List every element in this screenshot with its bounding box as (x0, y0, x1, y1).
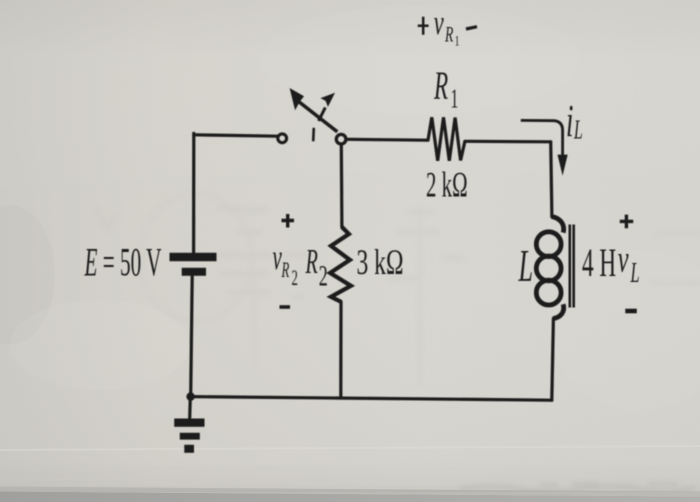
wire top middle (switch to R1) (346, 138, 428, 142)
wire middle branch lower (R2 to bottom) (339, 302, 342, 398)
svg-text:R: R (281, 257, 290, 281)
battery E short plate (182, 268, 206, 276)
switch motion arrowhead (321, 93, 336, 107)
ground symbol (174, 419, 204, 427)
svg-text:R: R (305, 244, 318, 282)
node junction dot (186, 392, 194, 400)
svg-text:1: 1 (455, 32, 460, 49)
svg-text:3 kΩ: 3 kΩ (357, 242, 404, 282)
inductor L coil (536, 217, 563, 319)
ink (84, 4, 640, 453)
label + above vR2 (282, 214, 295, 228)
svg-text:E = 50 V: E = 50 V (84, 239, 162, 284)
label + vR1 - (418, 4, 477, 49)
switch motion dash 1 (319, 108, 326, 121)
svg-text:L: L (573, 114, 582, 145)
switch motion dash 2 (312, 128, 315, 142)
wire left vertical lower (battery to bottom node) (191, 276, 193, 397)
svg-text:i: i (566, 96, 573, 147)
faint bleed-through ghosts (96, 194, 700, 492)
wire left vertical upper (to battery) (192, 133, 195, 252)
svg-text:v: v (618, 238, 629, 280)
label R2 (305, 244, 328, 293)
switch arm (299, 102, 337, 132)
label + above vL (620, 215, 633, 229)
svg-text:2: 2 (292, 265, 298, 289)
wire bottom horizontal (191, 397, 552, 401)
iL current arrow (521, 120, 563, 156)
bottom paper edge (0, 492, 700, 502)
label vL (618, 238, 640, 288)
svg-text:L: L (518, 241, 533, 291)
wire top right (R1 to corner) (465, 140, 551, 144)
wire right vertical upper (corner to inductor) (551, 142, 552, 217)
wire middle branch upper (switch to R2) (340, 144, 344, 227)
label vR2 (273, 238, 298, 289)
switch terminal left (278, 134, 287, 143)
label iL (566, 96, 583, 147)
battery E long plate (170, 253, 217, 261)
svg-text:R: R (433, 65, 448, 109)
inductor core lines (570, 225, 574, 308)
wire top-left horizontal (194, 135, 278, 136)
label R1 (433, 65, 458, 114)
svg-text:v: v (434, 4, 445, 42)
resistor R1 zigzag (428, 117, 465, 161)
wire ground stem (188, 397, 192, 419)
wire right vertical lower (inductor to bottom) (552, 318, 554, 400)
resistor R2 zigzag (330, 227, 351, 302)
label minus below vL (625, 309, 637, 314)
label minus below vR2 (280, 305, 291, 309)
svg-text:L: L (630, 258, 640, 289)
switch arm arrowhead (290, 88, 304, 110)
svg-text:R: R (444, 22, 453, 46)
svg-text:1: 1 (451, 83, 459, 114)
svg-text:4 H: 4 H (582, 242, 616, 286)
switch terminal right (336, 134, 346, 144)
svg-text:2: 2 (319, 260, 328, 293)
svg-text:2 kΩ: 2 kΩ (426, 166, 468, 205)
